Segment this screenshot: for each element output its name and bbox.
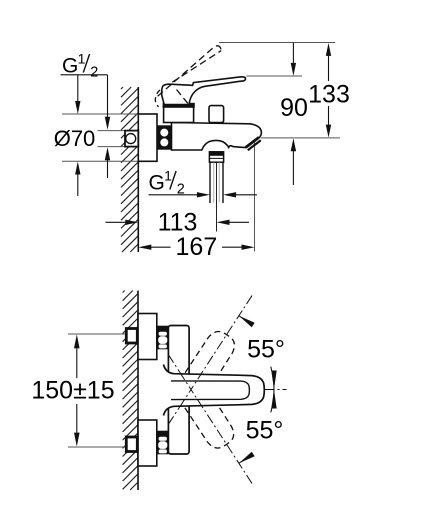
svg-text:133: 133: [308, 81, 350, 109]
svg-text:Ø70: Ø70: [54, 126, 96, 151]
svg-text:G: G: [149, 172, 165, 195]
svg-text:1: 1: [78, 51, 86, 67]
svg-text:G: G: [62, 55, 78, 78]
svg-text:1: 1: [164, 168, 172, 184]
svg-text:55°: 55°: [246, 417, 284, 445]
svg-text:150±15: 150±15: [31, 377, 114, 405]
svg-text:167: 167: [176, 233, 218, 261]
svg-text:90: 90: [280, 94, 308, 122]
svg-text:55°: 55°: [247, 336, 285, 364]
svg-text:2: 2: [90, 65, 98, 81]
